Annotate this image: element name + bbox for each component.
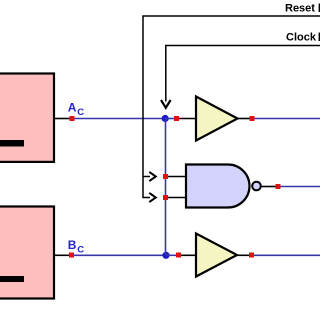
pin U3 input 2 (163, 195, 168, 200)
wire net AC from X1 to node A (54, 118, 166, 120)
wire U3 output stub (261, 186, 276, 188)
svg-text:C: C (77, 107, 84, 118)
svg-text:A: A (68, 101, 77, 115)
pin U2 output (249, 253, 254, 258)
nand U3 bubble (252, 182, 261, 191)
svg-text:Reset: Reset (285, 3, 315, 15)
pin U2 input (176, 253, 181, 258)
wire U1 output net to right edge (255, 118, 320, 120)
wire U2 input stub (181, 254, 197, 256)
wire U1 output stub (238, 118, 250, 120)
wire U2 output net to right edge (254, 254, 320, 256)
wire U2 output stub (237, 254, 249, 256)
node B (junction) (162, 252, 169, 259)
svg-text:B: B (68, 238, 77, 252)
wire vertical net node A to node B (165, 119, 167, 256)
wire node A to buffer U1 input pin (166, 118, 175, 120)
arrow Reset to U3 input 2 (149, 193, 156, 202)
wire node B to buffer U2 input pin (166, 254, 176, 256)
label Reset cut letter (319, 4, 320, 13)
label Clock cut letter (319, 33, 320, 42)
block X1 (left device A) (0, 74, 54, 162)
arrow Reset to U3 input 1 (149, 172, 156, 181)
pin U3 output (276, 184, 281, 189)
buffer U2 (196, 234, 237, 277)
nand gate U3 (186, 165, 250, 208)
buffer U1 (196, 97, 238, 141)
wire U3 input stub 2 (168, 197, 188, 199)
pin U1 input (174, 116, 179, 121)
label AC (68, 101, 84, 119)
wire net BC from X2 to node B (54, 254, 166, 256)
wire U3 input stub 1 (168, 176, 188, 178)
label BC (68, 238, 84, 256)
wire U3 output net to right edge (281, 186, 320, 188)
svg-text:Clock: Clock (286, 32, 317, 44)
node A (junction) (162, 115, 169, 122)
wire Clock line (166, 46, 320, 102)
pin BC on X2 (69, 253, 74, 258)
pin U3 input 1 (163, 174, 168, 179)
arrow Clock to node A (161, 100, 171, 108)
wire U1 input stub (179, 118, 197, 120)
block X2 (left device B) (0, 207, 54, 299)
wire Reset line (143, 16, 320, 198)
pin AC on X1 (70, 116, 75, 121)
pin U1 output (250, 116, 255, 121)
svg-text:C: C (77, 245, 84, 256)
